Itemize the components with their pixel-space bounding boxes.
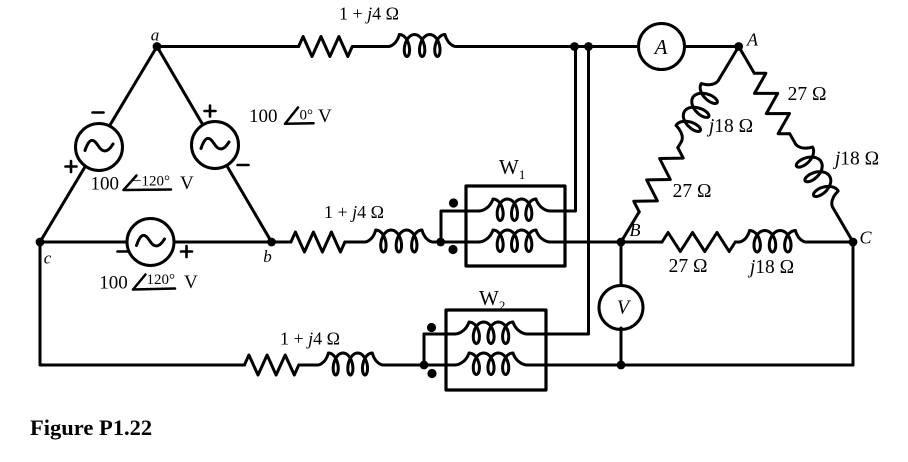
node A [734, 42, 743, 51]
voltmeter V [599, 286, 643, 330]
wire: delta leg A-B upper [718, 47, 739, 81]
junction on line a (W2 tap) [584, 42, 593, 51]
wire: W2 voltage coil left lead down to bottom line [424, 333, 455, 336]
junction on line a (W1 tap) [570, 42, 579, 51]
wire: delta leg A-C middle [790, 134, 796, 144]
voltmeter V lead to bottom line [620, 328, 623, 365]
wire: top line from ammeter to node A [685, 45, 739, 48]
svg-text:100: 100 [91, 174, 120, 195]
polarity plus of source c-b [181, 246, 192, 257]
wattmeter W1 current coil [479, 230, 550, 252]
wire: bottom line between resistor and inductor [299, 364, 318, 367]
inductor j4 ohm (line c) [317, 353, 383, 375]
svg-text:j18 Ω: j18 Ω [747, 257, 794, 278]
polarity plus of source c-a [66, 161, 77, 172]
resistor 27 ohm (leg B-C) [662, 233, 735, 252]
wire: source leg a-b [157, 47, 272, 243]
junction: voltmeter on bottom line [617, 361, 626, 370]
svg-text:j18 Ω: j18 Ω [832, 149, 879, 170]
svg-text:120°: 120° [147, 272, 176, 288]
wire: top line from inductor to ammeter [456, 45, 639, 48]
inductor j4 ohm (line b) [365, 230, 433, 252]
resistor 1 ohm (line b) [291, 232, 345, 252]
junction: W2 voltage lead on bottom line [420, 361, 429, 370]
svg-text:100: 100 [99, 273, 128, 294]
wire: delta leg A-C lower [833, 207, 853, 242]
wire: middle line from b to resistor [272, 241, 291, 244]
inductor j18 ohm (leg A-C) [796, 144, 839, 207]
W1 polarity dot upper [449, 198, 458, 207]
wire: delta leg A-B middle [678, 142, 682, 148]
svg-text:100: 100 [249, 106, 278, 127]
resistor 27 ohm (leg A-C) [754, 73, 789, 133]
polarity minus of source a-b [238, 164, 249, 167]
wire: source leg c-b [40, 241, 272, 244]
W1 polarity dot lower [448, 245, 457, 254]
wire: source leg a-c [40, 47, 157, 243]
wire: delta leg A-B lower [621, 212, 639, 242]
svg-text:j18 Ω: j18 Ω [706, 116, 753, 137]
ammeter A [639, 24, 685, 70]
svg-text:27 Ω: 27 Ω [788, 84, 827, 105]
svg-text:b: b [263, 247, 272, 266]
wire: delta leg B-C left [621, 241, 662, 244]
wire: W1 voltage coil left lead down to line b [441, 211, 479, 242]
node B [617, 238, 626, 247]
svg-text:W2: W2 [479, 286, 505, 313]
wire: middle line between resistor and inductor [345, 241, 365, 244]
resistor 1 ohm (line a) [299, 37, 353, 57]
wire: vertical from node C down to bottom line [852, 242, 855, 365]
svg-text:−120°: −120° [133, 174, 170, 190]
wire: top line from node a to line resistor [157, 45, 299, 48]
wire: top line between resistor and inductor [352, 45, 388, 48]
polarity minus of source c-b [118, 250, 129, 253]
wattmeter W2 current coil [455, 353, 527, 375]
svg-text:1 + j4 Ω: 1 + j4 Ω [280, 329, 340, 349]
resistor 27 ohm (leg A-B) [634, 148, 683, 212]
wattmeter W1 box [466, 186, 565, 266]
wattmeter W1 voltage coil [479, 199, 550, 221]
svg-text:0°: 0° [300, 108, 314, 124]
wire: delta leg B-C middle [735, 241, 739, 244]
svg-text:A: A [653, 35, 668, 59]
svg-text:A: A [746, 30, 759, 50]
svg-text:V: V [184, 272, 198, 293]
wire: bottom line from W2 to corner below C [527, 364, 853, 367]
junction: W1 voltage lead on line b [436, 238, 445, 247]
wire: delta leg A-C upper [739, 47, 755, 74]
wire: vertical tap on line a down to W2 voltage coil [527, 47, 589, 335]
wire: bottom line from node c [40, 242, 244, 365]
wire: middle line from inductor into wattmeter W1 [433, 241, 479, 244]
svg-text:a: a [151, 26, 160, 45]
node c [36, 238, 45, 247]
inductor j18 ohm (leg B-C) [739, 231, 806, 253]
svg-text:1 + j4 Ω: 1 + j4 Ω [324, 202, 384, 222]
svg-text:Figure P1.22: Figure P1.22 [30, 415, 152, 440]
inductor j18 ohm (leg A-B) [676, 81, 718, 142]
wire: delta leg B-C right [806, 241, 853, 244]
svg-text:c: c [44, 249, 52, 268]
ac source 100 angle 0 V (leg a-b) [192, 122, 239, 169]
node C [849, 238, 858, 247]
wattmeter W2 voltage coil [455, 322, 527, 344]
ac source 100 angle 120 V (leg c-b) [127, 219, 174, 266]
polarity minus of source c-a [93, 111, 104, 114]
resistor 1 ohm (line c) [244, 355, 298, 375]
W2 polarity dot upper [427, 323, 436, 332]
svg-text:1 + j4 Ω: 1 + j4 Ω [339, 4, 399, 24]
inductor j4 ohm (line a) [388, 35, 456, 57]
wattmeter W2 box [446, 310, 546, 390]
W2 polarity dot lower [427, 369, 436, 378]
svg-text:W1: W1 [499, 155, 525, 182]
ac source 100 angle -120 V (leg c-a) [76, 124, 123, 171]
wire: W1 voltage coil right lead up to line a [550, 47, 576, 212]
node a [153, 42, 162, 51]
svg-text:V: V [180, 173, 194, 194]
polarity plus of source a-b [205, 106, 216, 117]
svg-text:B: B [630, 220, 641, 240]
svg-text:27 Ω: 27 Ω [669, 256, 708, 277]
voltmeter V lead from node B [620, 242, 623, 287]
node b [267, 238, 276, 247]
wire: bottom line from inductor into W2 [383, 364, 455, 367]
svg-text:27 Ω: 27 Ω [673, 181, 712, 202]
svg-text:V: V [318, 106, 332, 127]
svg-text:C: C [859, 228, 872, 248]
wire: W1 current coil to node B [550, 241, 621, 244]
